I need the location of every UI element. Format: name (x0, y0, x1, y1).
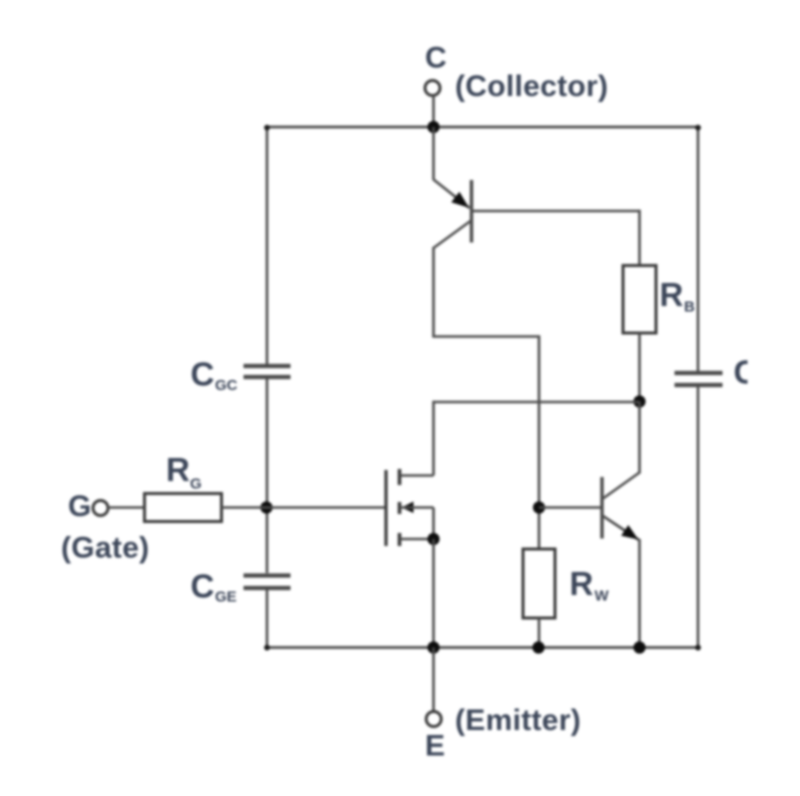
wire collector stub (432, 96, 435, 128)
terminal C (425, 81, 440, 96)
label Cge (191, 568, 237, 606)
wire left bus middle (266, 379, 269, 573)
capacitor Cgc (244, 366, 291, 377)
label (Collector) (455, 70, 608, 103)
svg-text:(Emitter): (Emitter) (455, 704, 581, 737)
label C (collector terminal) (425, 42, 447, 75)
svg-text:W: W (595, 588, 610, 605)
label Rg (166, 451, 202, 493)
svg-text:GE: GE (215, 589, 237, 606)
svg-text:B: B (684, 299, 695, 316)
svg-text:G: G (190, 476, 202, 493)
resistor Rb (623, 266, 656, 334)
wire emitter stub (432, 648, 435, 712)
resistor Rw (523, 549, 555, 618)
label (Emitter) (455, 704, 581, 737)
wire drain bus (434, 401, 640, 404)
label C (right capacitor, partially cut) (734, 350, 773, 394)
terminal E (426, 712, 441, 727)
label E (emitter terminal) (425, 730, 445, 763)
wire NPN collector up (638, 402, 641, 474)
resistor Rg (145, 494, 222, 522)
node bottom-right corner (695, 645, 701, 651)
wire Rw bottom lead (538, 618, 541, 649)
node gate junction (260, 501, 272, 513)
svg-text:R: R (660, 276, 684, 313)
wire gate terminal to Rg (108, 506, 144, 509)
wire MOSFET source down (432, 539, 435, 649)
capacitor Cge (244, 576, 291, 589)
wire Rb bottom lead (638, 333, 641, 402)
transistor Q3 MOSFET (386, 401, 434, 546)
svg-text:R: R (166, 451, 190, 488)
wire left bus upper (266, 126, 269, 364)
node top-left corner (264, 125, 270, 131)
wire Rg to gate node and MOSFET gate (222, 506, 387, 509)
wire Rb top lead (638, 210, 641, 266)
label Cgc (191, 356, 238, 395)
svg-text:E: E (425, 730, 445, 763)
node MOSFET source junction (427, 533, 439, 545)
svg-text:GC: GC (215, 377, 238, 394)
node bottom-left corner (264, 645, 270, 651)
wire PNP collector down (434, 247, 540, 549)
wire bottom bus (266, 646, 700, 649)
node emitter junction (427, 641, 439, 653)
node Rw bottom junction (532, 641, 544, 653)
wire NPN base lead (539, 506, 602, 509)
wire top bus (266, 126, 700, 129)
node top-right corner (695, 125, 701, 131)
node collector junction (427, 121, 439, 133)
svg-text:C: C (191, 568, 215, 605)
terminal G (93, 501, 108, 516)
svg-text:C: C (191, 356, 215, 393)
node Rb junction (633, 395, 645, 407)
svg-text:(Gate): (Gate) (61, 532, 149, 565)
node Rw junction (533, 501, 545, 513)
svg-text:C: C (425, 42, 447, 75)
svg-text:(Collector): (Collector) (455, 70, 608, 103)
wire right bus upper (697, 126, 700, 371)
wire left bus lower (266, 590, 269, 649)
wire PNP base lead (472, 210, 640, 213)
label Rb (660, 276, 696, 316)
label (Gate) (61, 532, 149, 565)
wire right bus lower (697, 387, 700, 649)
transistor Q1 PNP (434, 127, 472, 248)
wire NPN emitter down (638, 539, 641, 649)
capacitor Cce (675, 373, 723, 385)
label G (gate terminal) (68, 490, 92, 523)
svg-text:R: R (570, 565, 594, 602)
svg-text:G: G (68, 490, 92, 523)
label Rw (570, 565, 610, 605)
node NPN emitter bottom junction (633, 641, 645, 653)
transistor Q2 NPN (602, 473, 640, 541)
